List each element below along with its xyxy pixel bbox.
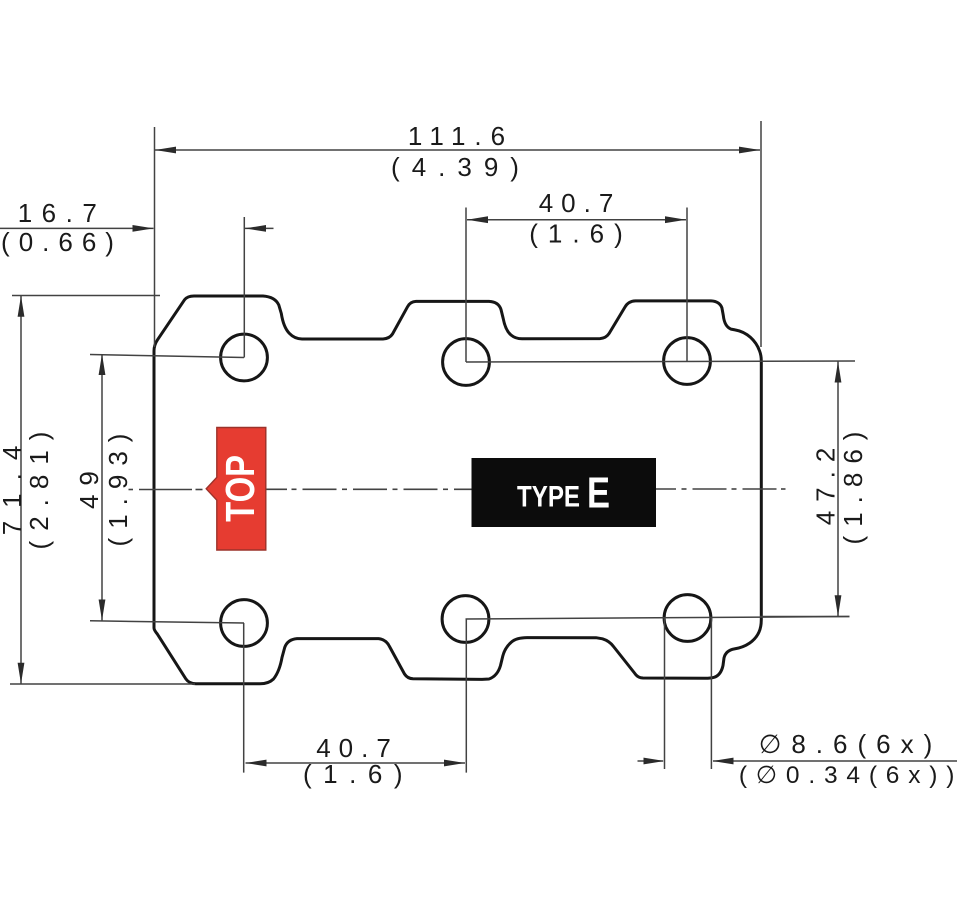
- svg-text:111.6: 111.6: [408, 121, 514, 151]
- TYPE E black label: [472, 458, 657, 527]
- dim line 47.2 vertical: [837, 362, 839, 617]
- dim line 40.7 top: [467, 219, 686, 221]
- hole bottom-left: [221, 600, 268, 647]
- svg-text:E: E: [587, 469, 610, 518]
- thin extension and dimension lines: [0, 121, 957, 773]
- svg-text:(0.66): (0.66): [1, 227, 123, 257]
- arrowheads: [18, 147, 842, 767]
- svg-text:TYPE: TYPE: [517, 481, 580, 514]
- dim line dia leader right: [713, 760, 957, 762]
- svg-text:(1.6): (1.6): [303, 759, 414, 789]
- svg-text:49: 49: [74, 462, 104, 509]
- arrow 40.7 bottom left: [246, 760, 267, 767]
- dim line 71.4 vertical: [20, 296, 22, 684]
- arrow 49 down: [99, 600, 106, 621]
- arrow 40.7 top left: [467, 216, 488, 223]
- center dash-dot line: [129, 488, 786, 491]
- svg-text:(1.86): (1.86): [838, 423, 868, 545]
- arrow 71.4 up: [18, 296, 25, 317]
- TOP red label: [206, 428, 266, 551]
- svg-text:47.2: 47.2: [811, 439, 841, 526]
- ext line 71.4 top: [12, 295, 160, 297]
- ext line hole2 bottom vertical: [465, 619, 467, 773]
- arrow 47.2 down: [835, 595, 842, 616]
- svg-text:(4.39): (4.39): [391, 152, 531, 182]
- hole top-middle: [443, 339, 490, 386]
- ext line right edge vertical: [760, 121, 762, 347]
- plate outline: [154, 296, 761, 684]
- ext line hole dia right: [710, 618, 712, 769]
- ext line hole3 top vertical: [686, 208, 688, 362]
- arrow 16.7 right-pointing: [133, 225, 154, 232]
- arrow 49 up: [99, 354, 106, 375]
- hole top-left: [221, 334, 268, 381]
- dim line 40.7 bottom: [246, 762, 466, 764]
- svg-text:(∅0.34(6x)): (∅0.34(6x)): [739, 762, 960, 789]
- arrow 71.4 down: [18, 663, 25, 684]
- row line bottom-left: [90, 621, 244, 623]
- dim line dia leader left: [638, 760, 664, 762]
- arrow 16.7 left-pointing: [245, 225, 266, 232]
- dim line 16.7 right tail: [245, 227, 274, 229]
- arrow 40.7 top right: [665, 216, 686, 223]
- svg-text:TOP: TOP: [217, 455, 263, 522]
- arrow dia right-pointing: [644, 758, 665, 765]
- arrow dia left-pointing: [713, 758, 734, 765]
- ext line hole1 top vertical: [243, 217, 245, 358]
- arrow 111.6 right: [739, 147, 760, 154]
- dim line 111.6: [155, 149, 760, 151]
- svg-text:71.4: 71.4: [0, 433, 27, 536]
- arrow 111.6 left: [155, 147, 176, 154]
- ext line left edge vertical: [154, 127, 156, 347]
- ext line 71.4 bottom: [10, 683, 195, 685]
- arrow 40.7 bottom right: [444, 760, 465, 767]
- row line bottom-right: [466, 617, 850, 620]
- hole bottom-middle: [442, 596, 489, 643]
- dim line 16.7 left part: [0, 227, 154, 229]
- ext line hole dia left: [664, 618, 666, 769]
- ext line hole1 bottom vertical: [243, 623, 245, 773]
- svg-text:(1.6): (1.6): [529, 219, 632, 249]
- svg-text:16.7: 16.7: [18, 198, 107, 228]
- arrow 47.2 up: [835, 362, 842, 383]
- svg-text:∅8.6(6x): ∅8.6(6x): [759, 729, 943, 759]
- hole top-right: [664, 338, 711, 385]
- ext line hole2 top vertical: [465, 208, 467, 363]
- hole bottom-right: [664, 595, 711, 642]
- svg-text:40.7: 40.7: [539, 188, 622, 218]
- dim line 49 vertical: [101, 354, 103, 621]
- svg-text:(1.93): (1.93): [103, 425, 133, 547]
- ext line 47.2 bottom: [760, 616, 850, 618]
- row line top-right: [466, 361, 855, 362]
- row line top-left: [90, 355, 244, 358]
- svg-text:(2.81): (2.81): [24, 422, 54, 550]
